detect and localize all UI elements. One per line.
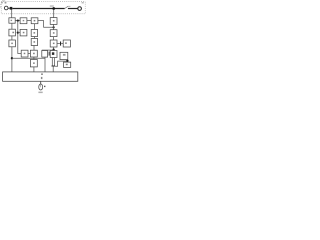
block U10 right column row1 <box>50 18 57 25</box>
long wire node E to riser <box>12 57 45 59</box>
junction node B <box>17 20 19 22</box>
block U8 mid column row2 <box>31 30 37 37</box>
crystal Y1 lead right <box>53 58 55 66</box>
title text top-left <box>2 0 5 2</box>
block U14 <box>50 40 57 47</box>
switch contact tick <box>68 5 70 8</box>
label right of OSC1 <box>44 86 45 87</box>
wire Y1 to node G <box>55 61 67 66</box>
label top-right <box>82 2 84 3</box>
wire U4 to U6 <box>11 36 13 40</box>
wire U1 to U4 <box>11 23 13 29</box>
junction dot on bus <box>52 7 55 10</box>
wire C1 to U17 <box>61 42 63 44</box>
dashed enclosure box <box>1 2 85 14</box>
wire bus box to oscillator <box>40 81 42 84</box>
label below OSC1 <box>38 92 42 94</box>
wire U1 to U2 <box>15 20 20 22</box>
crystal Y1 bar <box>52 66 56 67</box>
vertical bus line left <box>17 21 19 54</box>
block U6 <box>9 40 16 47</box>
block U18 <box>60 52 68 59</box>
block U5 <box>20 29 27 36</box>
label above node A <box>1 2 3 3</box>
block U1 <box>9 18 15 23</box>
oscillator inner line <box>40 84 42 87</box>
node A (filled block) <box>10 7 13 10</box>
block U17 <box>63 40 70 47</box>
wire U18 to node G <box>66 60 68 63</box>
wire G1 to node A <box>8 7 10 9</box>
junction node E <box>11 57 13 59</box>
block U3 <box>31 18 38 24</box>
wire row to node F <box>42 49 54 51</box>
junction node D <box>53 26 55 28</box>
wire U11 to U12 <box>33 57 35 60</box>
riser to bus box <box>44 57 46 72</box>
wire U3 to U8 <box>33 24 35 30</box>
block U9 mid column row3 <box>31 39 37 46</box>
wire U13 to U14 <box>53 37 55 40</box>
wire U14 to C1 <box>57 42 60 44</box>
wire node C to U5 <box>18 32 20 34</box>
block U2 <box>20 18 27 24</box>
wire U10 to U13 <box>53 24 55 29</box>
wire bus down to U10 <box>53 10 55 18</box>
label left edge <box>0 3 1 6</box>
wire U14 down to node F <box>53 47 55 51</box>
block U11 <box>30 50 37 57</box>
switch SW1 lever <box>65 6 68 8</box>
oscillator OSC1 <box>39 84 43 90</box>
block U7 <box>21 50 28 57</box>
wire bus down to U1 <box>11 10 13 18</box>
wire U6 down to node E <box>11 47 13 72</box>
block U12 <box>30 60 37 67</box>
wire U9 to U11 <box>33 46 35 51</box>
bus box BB1 <box>3 72 78 81</box>
block U13 <box>50 30 57 37</box>
junction node G <box>66 60 68 62</box>
wire U2 to U3 <box>27 20 31 22</box>
source circle G1 <box>4 6 8 10</box>
label above bus junction <box>50 5 54 7</box>
crystal Y1 lead left <box>51 58 53 66</box>
block U16 <box>50 51 57 58</box>
terminal circle P1 <box>78 7 82 11</box>
wire U8 to U9 <box>33 37 35 39</box>
junction node C <box>17 31 19 33</box>
wire U12 to bus box <box>33 67 35 72</box>
block U19 <box>64 62 71 67</box>
wire U3 to node D (Z route) <box>38 21 53 28</box>
wire U15 to U16 <box>49 52 51 56</box>
bus line left segment <box>12 7 64 9</box>
junction node F <box>52 49 54 51</box>
label inside bus box <box>41 73 43 75</box>
wire vbus to U7 <box>17 52 21 54</box>
block U15 <box>42 51 48 58</box>
wire U7 to U11 <box>28 52 30 54</box>
bus line right segment <box>68 8 78 10</box>
capacitor plate C1 <box>60 42 61 46</box>
block U4 <box>9 29 16 36</box>
wire Y1 to bus box <box>52 67 54 72</box>
